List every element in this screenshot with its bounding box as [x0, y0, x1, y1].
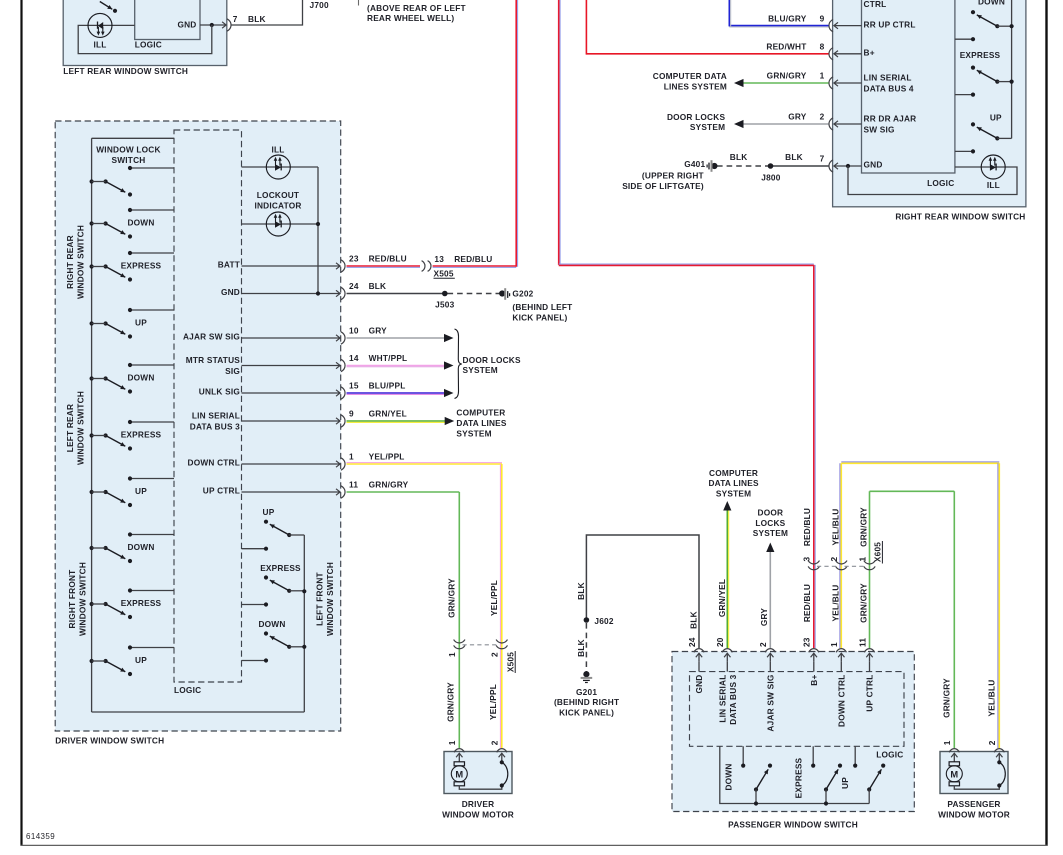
svg-text:RIGHT REAR WINDOW SWITCH: RIGHT REAR WINDOW SWITCH — [895, 212, 1025, 222]
svg-text:LIN SERIAL: LIN SERIAL — [717, 675, 727, 723]
driver window motor box — [444, 752, 512, 794]
dashed BLK wire to G202 — [448, 293, 500, 295]
junction on GND wire — [210, 23, 214, 27]
svg-text:9: 9 — [820, 13, 825, 23]
svg-text:RED/BLU: RED/BLU — [802, 508, 812, 546]
svg-text:UP CTRL: UP CTRL — [203, 486, 240, 496]
svg-text:WINDOW SWITCH: WINDOW SWITCH — [78, 562, 88, 636]
svg-text:SWITCH: SWITCH — [112, 155, 146, 165]
lockout indicator LED — [266, 212, 290, 236]
svg-text:DATA BUS 3: DATA BUS 3 — [728, 674, 738, 724]
cut-off ground stub wire — [358, 0, 360, 6]
svg-text:J503: J503 — [435, 299, 454, 309]
svg-text:BLU/PPL: BLU/PPL — [369, 381, 406, 391]
wire GRY pin 10 — [347, 337, 445, 339]
svg-text:RIGHT REAR: RIGHT REAR — [65, 235, 75, 289]
svg-text:GRN/GRY: GRN/GRY — [446, 578, 456, 618]
wire YEL/BLU riser — [841, 462, 999, 464]
svg-text:(UPPER RIGHT: (UPPER RIGHT — [642, 171, 704, 181]
svg-text:10: 10 — [349, 326, 359, 336]
svg-text:GND: GND — [221, 287, 240, 297]
svg-text:7: 7 — [233, 14, 238, 24]
svg-text:YEL/PPL: YEL/PPL — [369, 452, 405, 462]
svg-text:(ABOVE REAR OF LEFT: (ABOVE REAR OF LEFT — [367, 3, 466, 13]
svg-text:BLK: BLK — [576, 639, 586, 657]
wire RED/BLU X505 to riser — [433, 265, 517, 267]
wire GRY pin 2 with arrow — [743, 123, 829, 125]
wire GND to pin 7 — [200, 24, 226, 26]
splice J503 — [442, 291, 448, 297]
svg-text:LEFT REAR WINDOW SWITCH: LEFT REAR WINDOW SWITCH — [63, 66, 188, 76]
svg-text:YEL/PPL: YEL/PPL — [489, 580, 499, 616]
left rear express switch — [130, 421, 174, 423]
svg-text:KICK PANEL): KICK PANEL) — [512, 312, 567, 322]
svg-text:24: 24 — [349, 281, 359, 291]
svg-text:7: 7 — [820, 154, 825, 164]
svg-text:EXPRESS: EXPRESS — [960, 50, 1001, 60]
svg-text:X605: X605 — [873, 542, 883, 562]
svg-text:J700: J700 — [310, 0, 329, 10]
svg-text:GRN/YEL: GRN/YEL — [717, 579, 727, 617]
svg-text:YEL/PPL: YEL/PPL — [488, 684, 498, 720]
svg-text:8: 8 — [820, 42, 825, 52]
svg-text:COMPUTER DATA: COMPUTER DATA — [653, 71, 727, 81]
svg-text:GRN/YEL: GRN/YEL — [369, 409, 407, 419]
junction dot GND wire — [316, 291, 320, 295]
ILL LED loop wire — [78, 25, 212, 54]
svg-text:LOGIC: LOGIC — [174, 685, 201, 695]
svg-text:LEFT FRONT: LEFT FRONT — [314, 572, 324, 626]
svg-text:DOWN: DOWN — [258, 619, 285, 629]
passenger up switch — [854, 746, 856, 765]
passenger window switch box — [672, 652, 914, 812]
wire RED/BLU pin 23 to X505 — [347, 265, 421, 267]
wire BLK pin 7 to J800 — [771, 165, 829, 167]
svg-text:1: 1 — [942, 740, 952, 745]
svg-text:WINDOW MOTOR: WINDOW MOTOR — [442, 809, 514, 819]
svg-text:DOOR LOCKS: DOOR LOCKS — [463, 355, 522, 365]
svg-text:B+: B+ — [809, 675, 819, 686]
svg-text:GRY: GRY — [759, 608, 769, 627]
svg-text:EXPRESS: EXPRESS — [794, 757, 804, 798]
svg-text:WINDOW LOCK: WINDOW LOCK — [96, 144, 160, 154]
passenger switch connector at x=699 — [694, 649, 704, 653]
svg-text:G201: G201 — [576, 687, 597, 697]
svg-text:2: 2 — [987, 740, 997, 745]
svg-text:WINDOW SWITCH: WINDOW SWITCH — [75, 225, 85, 299]
window lock switch — [130, 167, 174, 169]
ILL LED of left rear switch — [88, 13, 112, 37]
right front express switch — [130, 590, 174, 592]
ground G401 — [711, 163, 717, 169]
svg-text:PASSENGER: PASSENGER — [947, 799, 1000, 809]
svg-text:AJAR SW SIG: AJAR SW SIG — [183, 332, 240, 342]
svg-text:WINDOW SWITCH: WINDOW SWITCH — [75, 391, 85, 465]
svg-text:YEL/BLU: YEL/BLU — [830, 585, 840, 622]
svg-text:MTR STATUS: MTR STATUS — [186, 355, 240, 365]
svg-text:WINDOW SWITCH: WINDOW SWITCH — [325, 562, 335, 636]
svg-text:SYSTEM: SYSTEM — [456, 428, 491, 438]
left rear up switch — [130, 309, 174, 311]
svg-text:23: 23 — [802, 637, 812, 647]
svg-text:B+: B+ — [864, 48, 875, 58]
passenger switch connector at x=869.5 — [864, 649, 874, 653]
passenger switch internal bus — [720, 746, 869, 803]
svg-text:YEL/BLU: YEL/BLU — [986, 680, 996, 717]
lockout indicator LED wires — [242, 223, 319, 225]
svg-text:DATA BUS 3: DATA BUS 3 — [190, 422, 240, 432]
right front down switch — [130, 534, 174, 536]
svg-text:UP: UP — [263, 507, 275, 517]
svg-text:GRN/GRY: GRN/GRY — [369, 480, 409, 490]
svg-text:GND: GND — [177, 20, 196, 30]
right front up switch 2 — [130, 647, 174, 649]
ground G202 — [499, 290, 505, 296]
svg-text:EXPRESS: EXPRESS — [121, 598, 162, 608]
svg-text:BLK: BLK — [576, 582, 586, 600]
left front switch bus — [303, 535, 305, 712]
svg-text:LIN SERIAL: LIN SERIAL — [864, 73, 912, 83]
svg-text:614359: 614359 — [26, 832, 55, 841]
svg-text:9: 9 — [349, 409, 354, 419]
svg-text:J602: J602 — [594, 616, 613, 626]
svg-text:RR DR AJAR: RR DR AJAR — [864, 114, 917, 124]
RED/BLU horizontal to passenger switch — [559, 264, 814, 266]
wire BLK J602 run — [586, 535, 699, 648]
svg-text:LOCKS: LOCKS — [755, 518, 785, 528]
svg-text:BLK: BLK — [730, 152, 748, 162]
svg-text:RED/WHT: RED/WHT — [766, 42, 806, 52]
svg-text:LOGIC: LOGIC — [927, 178, 954, 188]
svg-text:COMPUTER: COMPUTER — [456, 407, 505, 417]
wire GRY to door locks — [769, 551, 771, 648]
svg-text:ILL: ILL — [271, 145, 284, 155]
svg-text:G401: G401 — [684, 159, 705, 169]
svg-text:13: 13 — [434, 254, 444, 264]
passenger down switch — [742, 746, 744, 765]
svg-text:KICK PANEL): KICK PANEL) — [559, 708, 614, 718]
svg-text:11: 11 — [349, 480, 358, 490]
ground G201 — [583, 671, 589, 677]
splice J602 — [584, 617, 590, 623]
svg-text:DOWN: DOWN — [127, 218, 154, 228]
svg-text:ILL: ILL — [93, 40, 106, 50]
svg-text:REAR WHEEL WELL): REAR WHEEL WELL) — [367, 13, 454, 23]
svg-text:DOOR: DOOR — [758, 507, 784, 517]
svg-text:2: 2 — [758, 642, 768, 647]
wire BLU/GRY pin 9 — [729, 25, 828, 27]
svg-text:GRN/GRY: GRN/GRY — [859, 507, 869, 547]
logic block of left rear window switch — [135, 0, 200, 40]
left rear down switch — [130, 364, 174, 366]
svg-text:G202: G202 — [512, 289, 533, 299]
RED/BLU riser to top right — [558, 0, 560, 265]
svg-text:BLK: BLK — [248, 14, 266, 24]
svg-text:X505: X505 — [505, 652, 515, 672]
svg-text:SW SIG: SW SIG — [864, 125, 895, 135]
svg-text:WINDOW MOTOR: WINDOW MOTOR — [938, 809, 1010, 819]
svg-text:INDICATOR: INDICATOR — [254, 200, 301, 210]
svg-text:BLK: BLK — [785, 152, 803, 162]
svg-text:DATA LINES: DATA LINES — [456, 418, 507, 428]
right rear switch common bus — [1011, 0, 1013, 138]
svg-text:EXPRESS: EXPRESS — [121, 261, 162, 271]
svg-text:SIG: SIG — [225, 366, 240, 376]
inline connector X605 — [808, 561, 819, 564]
svg-text:RED/BLU: RED/BLU — [369, 254, 407, 264]
driver motor connector pin 2 — [497, 749, 507, 753]
RED/BLU riser to top left — [515, 0, 517, 267]
partial switch blade (cut off at top) — [100, 2, 113, 10]
wire BLK to J700 — [232, 0, 303, 25]
svg-text:SYSTEM: SYSTEM — [690, 122, 725, 132]
svg-text:2: 2 — [490, 740, 500, 745]
right rear down switch — [130, 209, 174, 211]
wire GRN/GRY down to passenger motor — [953, 491, 955, 748]
svg-text:GND: GND — [694, 675, 704, 694]
svg-text:BLK: BLK — [688, 611, 698, 629]
passenger switch connector at x=841.3 — [836, 649, 846, 653]
svg-text:SYSTEM: SYSTEM — [463, 365, 498, 375]
svg-text:GRY: GRY — [788, 112, 807, 122]
svg-text:1: 1 — [447, 652, 457, 657]
svg-text:UP: UP — [135, 486, 147, 496]
svg-text:RED/BLU: RED/BLU — [454, 254, 492, 264]
svg-text:EXPRESS: EXPRESS — [260, 563, 301, 573]
svg-text:LINES SYSTEM: LINES SYSTEM — [664, 82, 727, 92]
svg-text:SYSTEM: SYSTEM — [716, 489, 751, 499]
right rear logic box — [862, 0, 955, 173]
wire BLU/PPL pin 15 — [347, 392, 445, 394]
wire YEL/PPL pin 1 — [347, 463, 503, 465]
svg-text:DRIVER WINDOW SWITCH: DRIVER WINDOW SWITCH — [55, 736, 164, 746]
right rear express switch — [130, 252, 174, 254]
inline connector X505 to motor — [454, 640, 465, 643]
svg-text:LOGIC: LOGIC — [135, 40, 162, 50]
svg-text:YEL/BLU: YEL/BLU — [830, 509, 840, 546]
svg-text:RR UP CTRL: RR UP CTRL — [864, 19, 916, 29]
svg-text:J800: J800 — [761, 172, 780, 182]
motor M2 passenger — [949, 762, 959, 766]
svg-text:CTRL: CTRL — [864, 0, 887, 9]
svg-text:DOWN CTRL: DOWN CTRL — [836, 675, 846, 728]
svg-text:(BEHIND LEFT: (BEHIND LEFT — [512, 302, 572, 312]
brace door locks system — [455, 329, 462, 399]
svg-text:PASSENGER WINDOW SWITCH: PASSENGER WINDOW SWITCH — [728, 820, 858, 830]
wire WHT/PPL pin 14 — [347, 365, 445, 367]
svg-text:BLK: BLK — [369, 281, 387, 291]
driver window switch box — [55, 121, 341, 731]
svg-text:UP: UP — [135, 655, 147, 665]
svg-text:LIN SERIAL: LIN SERIAL — [192, 411, 240, 421]
svg-text:DOOR LOCKS: DOOR LOCKS — [667, 112, 726, 122]
passenger motor connector pin 2 — [994, 749, 1004, 753]
svg-text:RED/BLU: RED/BLU — [802, 584, 812, 622]
svg-text:20: 20 — [715, 637, 725, 647]
wire RED/WHT pin 8 — [586, 53, 828, 55]
svg-text:(BEHIND RIGHT: (BEHIND RIGHT — [554, 697, 619, 707]
svg-text:24: 24 — [687, 637, 697, 647]
svg-text:DOWN: DOWN — [127, 373, 154, 383]
svg-text:1: 1 — [820, 71, 825, 81]
ILL LED wires — [242, 166, 319, 168]
wire BLK pin 24 to J503 — [347, 293, 445, 295]
svg-text:1: 1 — [447, 740, 457, 745]
splice J800 — [768, 163, 774, 169]
svg-text:GRN/GRY: GRN/GRY — [446, 682, 456, 722]
motor reversing arc passenger — [999, 762, 1005, 785]
right rear window switch box — [833, 0, 1026, 207]
svg-text:GND: GND — [864, 160, 883, 170]
wire GRN/YEL to computer data lines — [726, 510, 728, 649]
svg-text:DOWN CTRL: DOWN CTRL — [188, 458, 241, 468]
svg-text:LEFT REAR: LEFT REAR — [65, 404, 75, 452]
bus junction dots — [302, 589, 306, 593]
svg-text:11: 11 — [857, 638, 867, 647]
svg-text:RIGHT FRONT: RIGHT FRONT — [67, 570, 77, 629]
svg-text:LOCKOUT: LOCKOUT — [257, 190, 299, 200]
svg-text:DATA LINES: DATA LINES — [708, 478, 759, 488]
left rear window switch U2 box — [63, 0, 227, 66]
svg-text:M: M — [950, 769, 958, 779]
svg-text:SIDE OF LIFTGATE): SIDE OF LIFTGATE) — [622, 181, 704, 191]
motor reversing arc — [502, 762, 508, 785]
wire GRN/GRY pin 11 — [347, 491, 460, 493]
svg-text:1: 1 — [829, 642, 839, 647]
passenger switch connector at x=813.8 — [809, 649, 819, 653]
wire bus to logic — [92, 137, 174, 139]
passenger express switch — [812, 746, 814, 765]
svg-text:23: 23 — [349, 254, 359, 264]
svg-text:DOWN: DOWN — [127, 542, 154, 552]
dashed BLK wire to G401 — [717, 165, 768, 167]
svg-text:15: 15 — [349, 381, 359, 391]
svg-text:GRY: GRY — [369, 326, 388, 336]
svg-text:GRN/GRY: GRN/GRY — [941, 678, 951, 718]
svg-text:SYSTEM: SYSTEM — [753, 528, 788, 538]
svg-text:2: 2 — [820, 112, 825, 122]
svg-text:DATA BUS 4: DATA BUS 4 — [864, 84, 914, 94]
left switch common bus — [91, 138, 93, 712]
svg-text:WHT/PPL: WHT/PPL — [369, 353, 408, 363]
svg-text:2: 2 — [490, 652, 500, 657]
svg-text:DRIVER: DRIVER — [462, 799, 495, 809]
svg-text:GRN/GRY: GRN/GRY — [767, 71, 807, 81]
ILL LED of right rear switch — [981, 155, 1005, 179]
passenger window motor box — [940, 752, 1008, 794]
driver motor connector pin 1 — [454, 749, 464, 753]
wire GRN/YEL pin 9 — [347, 420, 446, 422]
svg-text:2: 2 — [829, 557, 839, 562]
svg-text:GRN/GRY: GRN/GRY — [859, 583, 869, 623]
svg-text:X505: X505 — [434, 269, 454, 279]
svg-text:UP: UP — [990, 113, 1002, 123]
inline connector X505 (pin 13) — [422, 261, 425, 272]
pin 7 connector — [227, 19, 231, 31]
svg-text:UP: UP — [840, 777, 850, 789]
svg-text:BLU/GRY: BLU/GRY — [768, 13, 807, 23]
svg-text:EXPRESS: EXPRESS — [121, 430, 162, 440]
right front up switch — [130, 478, 174, 480]
svg-text:COMPUTER: COMPUTER — [709, 468, 758, 478]
svg-text:ILL: ILL — [987, 180, 1000, 190]
svg-text:UNLK SIG: UNLK SIG — [199, 387, 240, 397]
ILL LED of driver switch — [266, 155, 290, 179]
svg-text:DOWN: DOWN — [978, 0, 1005, 7]
bus junction dots right rear — [1010, 24, 1014, 28]
svg-text:1: 1 — [857, 557, 867, 562]
wire YEL/BLU down to passenger motor — [998, 463, 1000, 748]
right rear GND junction and ILL loop — [846, 164, 850, 168]
wire GRN/GRY riser — [870, 490, 955, 492]
svg-text:UP CTRL: UP CTRL — [865, 675, 875, 712]
dashed BLK wire to G201 — [585, 623, 587, 672]
svg-text:BATT: BATT — [218, 260, 240, 270]
svg-text:M: M — [455, 769, 463, 779]
wire RED/BLU riser to passenger switch — [813, 265, 815, 648]
bus bottom loop — [92, 711, 305, 713]
svg-text:1: 1 — [349, 452, 354, 462]
motor M1 driver — [454, 762, 464, 766]
svg-text:AJAR SW SIG: AJAR SW SIG — [765, 675, 775, 732]
svg-text:3: 3 — [802, 557, 812, 562]
svg-text:LOGIC: LOGIC — [876, 749, 903, 759]
wire GRN/GRY pin 1 with arrow — [743, 82, 829, 84]
passenger switch connector at x=770.3 — [765, 649, 775, 653]
svg-text:UP: UP — [135, 318, 147, 328]
driver switch logic box — [174, 130, 242, 682]
passenger switch connector at x=727.3 — [722, 649, 732, 653]
svg-text:14: 14 — [349, 353, 359, 363]
svg-text:DOWN: DOWN — [724, 763, 734, 790]
passenger motor connector pin 1 — [949, 749, 959, 753]
passenger logic box — [690, 672, 905, 747]
